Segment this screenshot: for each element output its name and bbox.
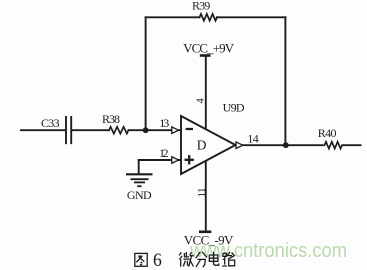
svg-text:14: 14 — [247, 131, 258, 145]
op-amp plus sign pin 12 — [185, 155, 194, 164]
svg-text:C33: C33 — [41, 116, 60, 130]
op-amp minus sign pin 13 — [186, 128, 193, 130]
svg-text:GND: GND — [127, 188, 152, 202]
wire output — [236, 144, 361, 146]
wire feedback top left segment — [146, 16, 200, 18]
VCC -9V stem pin 11 — [205, 160, 207, 232]
op-amp U9D triangle — [181, 116, 236, 174]
svg-text:R38: R38 — [102, 112, 120, 126]
VCC +9V stem pin 4 — [205, 56, 207, 132]
wire feedback top right segment — [217, 16, 285, 18]
caption glyph 微 — [179, 252, 194, 267]
ground symbol — [126, 174, 153, 186]
VCC -9V power symbol bar — [199, 231, 211, 234]
wire op-amp noninverting input — [139, 159, 181, 161]
node junction at output — [283, 142, 289, 148]
node junction at inverting input — [143, 127, 149, 133]
VCC +9V power symbol bar — [200, 54, 211, 57]
svg-text:D: D — [197, 138, 207, 153]
svg-text:4: 4 — [196, 98, 207, 104]
caption glyph 路 — [222, 252, 234, 266]
svg-text:6: 6 — [153, 251, 162, 270]
svg-text:11: 11 — [196, 188, 208, 198]
svg-text:U9D: U9D — [223, 100, 245, 114]
wire feedback right vertical — [284, 17, 286, 145]
svg-text:R40: R40 — [318, 126, 337, 140]
resistor R40 — [324, 140, 343, 150]
wire C33 to R38 — [72, 129, 109, 131]
svg-text:R39: R39 — [192, 0, 210, 13]
wire R38 to op-amp inverting input (node at x=145.6) — [129, 129, 182, 131]
caption glyph 电 — [209, 252, 219, 265]
resistor R38 — [109, 127, 128, 134]
capacitor C33 — [66, 117, 71, 143]
wire down to ground — [138, 160, 140, 174]
wire feedback left vertical — [145, 17, 147, 130]
input pin arrow 12 — [172, 157, 179, 164]
output pin arrow 14 — [236, 142, 243, 149]
svg-text:12: 12 — [159, 146, 169, 160]
input pin arrow 13 — [172, 127, 179, 134]
caption figure number glyph 图 — [135, 253, 147, 266]
wire input stub left of C33 — [21, 129, 65, 131]
resistor R39 — [200, 14, 217, 21]
svg-text:13: 13 — [159, 116, 169, 130]
svg-text:VCC_+9V: VCC_+9V — [183, 40, 235, 55]
caption glyph 分 — [196, 252, 207, 267]
